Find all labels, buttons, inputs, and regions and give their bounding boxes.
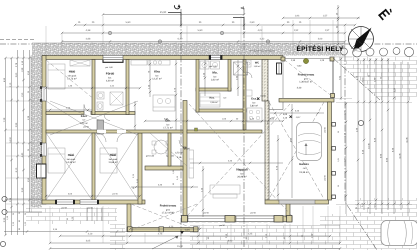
section line A-A vertical [243,8,245,248]
svg-text:1,52: 1,52 [294,29,299,32]
property boundary dash-dot line (telekhatár) [0,43,417,45]
interior dim v line x176 [175,60,177,130]
svg-text:1,88: 1,88 [21,67,24,72]
svg-text:30: 30 [337,131,340,133]
dim row top 3 [62,32,345,34]
svg-text:6,40: 6,40 [178,38,183,41]
door arc nappali [179,140,187,148]
svg-text:8,90: 8,90 [228,239,233,242]
tree/bush 6 [404,47,413,56]
svg-text:4,02: 4,02 [258,29,263,32]
marker circle right mid [358,120,363,125]
svg-text:pm 90: pm 90 [87,207,92,210]
roof diagonal terrace 2 [131,204,197,230]
svg-text:pm 1,80: pm 1,80 [209,65,217,68]
door gap corridor-bedroom1 [97,130,106,133]
leader diagonal hall [150,133,187,166]
interior wall Mosó left [196,60,199,113]
svg-text:2,10: 2,10 [88,232,93,235]
dim row right small [283,17,360,19]
svg-text:pm 90: pm 90 [219,224,224,227]
svg-text:14,39 m²: 14,39 m² [66,161,76,164]
nappali left wall [183,101,187,218]
chimney block left wall [37,164,47,178]
axis symbol row4 a [158,40,161,43]
svg-text:17,22 m²/90: 17,22 m²/90 [162,212,175,215]
svg-text:4,72 m²: 4,72 m² [175,152,183,155]
svg-text:1,30/4,67 m²: 1,30/4,67 m² [299,81,313,84]
window W6 bottom-left wing [80,200,98,204]
mosó fixtures [200,61,209,69]
svg-text:pm 90: pm 90 [324,175,327,180]
pantry shelves [200,93,220,107]
nappali left shelf [189,150,194,178]
svg-text:3,10: 3,10 [9,82,12,87]
svg-text:1,80 m²: 1,80 m² [254,65,261,68]
roof hip nappali diagonal 2 [189,104,292,216]
svg-text:pm 90: pm 90 [324,127,327,132]
door arc Háló [84,105,91,112]
section line C-C vertical [180,9,182,248]
interior wall below Fürdő [91,112,135,115]
svg-text:gres 0,00: gres 0,00 [146,155,155,158]
brick paving bottom band [190,226,417,250]
svg-text:14,90: 14,90 [9,136,12,142]
extension lines right of building [336,102,412,104]
dim col left 4 [23,50,25,235]
svg-text:2,65 m²: 2,65 m² [210,101,218,104]
compass circle [349,27,374,52]
dining table [154,140,168,154]
extension lines left of wall [6,57,42,59]
dim col top right x338 [337,5,339,44]
dim row bottom 2 [60,235,330,237]
terrace NE edge line [332,57,334,98]
section diagonal top-right [333,58,380,100]
terrace column NW [281,57,285,61]
svg-text:4,32: 4,32 [260,38,265,41]
tree/bush 3 [366,48,374,56]
exterior wall bottom of left wing [42,200,145,204]
window W2 top [210,55,221,59]
svg-text:15,90: 15,90 [177,245,184,248]
terrace bottom wall [127,228,198,232]
steps below left wing [86,208,88,222]
compass label É north [378,6,393,20]
terrace top edge thin line [285,58,330,60]
svg-text:19,36 m²: 19,36 m² [299,171,309,174]
window W1 bath top [103,55,123,59]
interior wall WC/Eszközt left [243,60,246,131]
car in garage [297,123,322,161]
dim col right 10 [407,62,409,216]
interior wall Mosó right [228,60,231,92]
window W7 nappali south [188,216,225,222]
svg-text:2,35: 2,35 [3,217,6,222]
brick paving walkway south of left wing [26,208,117,225]
nappali bottom wall [183,216,292,222]
door arc esz-garage [267,117,275,125]
svg-text:17,71 m²: 17,71 m² [163,127,173,130]
dim col right 6 [381,58,383,214]
dim row bottom 4 [50,248,340,250]
bed top-left bedroom [48,64,65,89]
dim col left 5 [29,50,31,212]
svg-text:15,90: 15,90 [160,11,167,14]
interior dim row y110 left [46,109,92,111]
svg-text:-0,02: -0,02 [297,65,303,68]
sofa nappali [210,185,240,194]
svg-text:1,50: 1,50 [21,92,24,97]
svg-text:3,75: 3,75 [169,225,174,228]
svg-text:1,05: 1,05 [337,158,340,162]
interior dim line terrace [131,186,198,188]
interior wall Fürdő/Konyha [126,60,129,115]
svg-text:-0,17: -0,17 [296,116,302,119]
section line vertical right x345 [345,55,377,250]
garage NW notch lines [269,109,283,111]
svg-text:pm 90: pm 90 [112,192,118,195]
svg-text:26,98 m²: 26,98 m² [237,176,247,179]
svg-text:Kha: Kha [154,70,160,74]
kitchen counter top [131,60,147,65]
dim col right 5 [375,58,377,210]
axis symbol row3 a [108,31,111,34]
svg-text:±0,00: ±0,00 [260,95,266,98]
interior dim v line x238 [237,60,239,96]
dim row bottom 3 [50,242,340,244]
terrace bottom pillars [128,227,133,232]
kitchen block center [153,95,175,111]
dim row top 4 [62,41,345,43]
tree/bush 2 [353,48,362,57]
svg-text:Esz.: Esz. [251,97,257,101]
esz table [247,108,262,122]
brick paving bottom-right block [320,214,417,250]
door arc wc [246,72,252,78]
svg-text:2,80: 2,80 [250,21,255,24]
svg-text:5,80: 5,80 [198,29,203,32]
garage side pillars pm90 [332,123,336,127]
roof diagonal terrace 1 [131,204,197,230]
svg-text:1,93: 1,93 [295,15,300,18]
extension lines below building [49,206,51,243]
roof diagonal garage 2 [269,102,324,199]
interior dim v line x205 [204,60,206,96]
svg-text:3,02 m²: 3,02 m² [211,79,219,82]
bedroom2 cross diagonal 1 [95,133,138,200]
dim col right 9 [400,62,402,210]
terrace column NE [330,57,334,61]
interior wall corridor bottom [46,130,187,133]
green marker square [195,128,198,131]
terrace west edge line [282,60,284,99]
hatched section wall right of WC [262,60,268,102]
wardrobe top bedroom [70,60,90,66]
svg-text:pm 90: pm 90 [83,126,88,129]
svg-text:4,88: 4,88 [86,38,91,41]
svg-text:Háló: Háló [110,153,117,157]
dim row bottom-left short [4,231,130,233]
dim col left 3 [17,50,19,235]
svg-text:2,95: 2,95 [21,187,24,192]
tree/bush 5 [393,48,400,55]
nappali SE corner wall [286,204,290,217]
dim col right 2 [357,58,359,212]
marker circle bottom-left corner [0,241,5,246]
section marker A top [233,18,244,31]
svg-text:5,80: 5,80 [126,21,131,24]
brick paving path going south [110,224,125,250]
svg-text:3,05: 3,05 [86,239,91,242]
svg-text:Fürdő: Fürdő [106,72,115,76]
roof hip nappali diagonal 1 [187,104,290,216]
gardrob west wall [168,133,171,166]
pavement edge below nappali [190,225,340,227]
dim row top 2 [75,24,355,26]
svg-text:Nappali: Nappali [236,168,247,172]
bedroom2 cross diagonal 2 [95,133,138,200]
svg-text:11,86 m²: 11,86 m² [108,161,117,164]
svg-text:4,38: 4,38 [86,29,91,32]
door gap corridor-bedroom2 [117,130,126,133]
tree/bush 4 [380,48,388,56]
bed bedroom 2 [48,148,65,173]
svg-text:WC: WC [255,62,259,65]
svg-text:Kerti épített kerti tűzrakóhel: Kerti épített kerti tűzrakóhely [249,50,274,53]
gravel strip top (kavics) [32,43,345,56]
svg-text:pm 90: pm 90 [203,212,208,215]
interior dim line garage top [270,112,324,114]
dim col right extra x346 [345,102,347,214]
leader diagonal corridor 1 [50,101,138,135]
marker circle left 2 [2,209,7,214]
svg-text:10,45: 10,45 [367,142,370,148]
dashed overhang below nappali [183,221,290,223]
dim col right 8 [393,62,395,214]
terrace left wall [127,204,131,232]
svg-text:Háló: Háló [68,153,75,157]
interior v dim terrace right [202,166,204,217]
gravel strip left [31,56,42,208]
door arc corridor-bath [104,115,110,121]
interior dim v line x150 [149,60,151,97]
svg-text:pm 1,80: pm 1,80 [105,66,113,69]
interior dim v line x292 [291,104,293,198]
interior wall between lower bedrooms [92,133,95,200]
interior wall Háló/Fürdő [92,60,95,115]
svg-text:2,75: 2,75 [158,232,163,235]
svg-text:ÉPÍTÉSI HELY: ÉPÍTÉSI HELY [296,45,343,53]
svg-text:pm 90: pm 90 [61,207,66,210]
compass needle [357,28,372,45]
section marker C top [168,13,181,27]
dim row top 15,90 [103,14,244,16]
garage right wall [328,102,332,200]
svg-text:11,35: 11,35 [398,153,401,159]
marker circle left 1 [2,196,7,201]
brick paving right-bottom [355,198,417,250]
svg-text:Étk.: Étk. [165,119,170,123]
axis symbol row3 b [220,31,223,34]
interior dim line hall [46,195,140,197]
exterior wall left [42,56,46,205]
tree symbol on terrace [303,58,308,63]
svg-text:1,57: 1,57 [323,15,328,18]
svg-text:ker: ker [83,119,86,122]
compass cross lines [351,29,371,49]
svg-text:6,10: 6,10 [15,167,18,172]
interior wall Mosó bottom [196,88,231,91]
interior v dim x135 corridor [134,101,136,130]
dim col right 7 [387,58,389,210]
svg-text:Mo.: Mo. [212,71,217,75]
svg-text:-0,04: -0,04 [184,229,190,232]
svg-text:Garázs: Garázs [299,162,309,166]
svg-text:12,37 m²: 12,37 m² [152,78,162,81]
brick paving top-right [333,57,417,101]
shower box WC [234,62,248,75]
svg-text:ker: ker [224,97,227,100]
dim col left 1 [5,58,7,235]
leader diagonal corridor 2 [50,101,138,135]
svg-text:4,00 m²: 4,00 m² [106,80,114,83]
svg-text:7,38: 7,38 [3,117,6,122]
svg-text:Fedett terasz: Fedett terasz [298,74,315,77]
window W4 left wall [42,143,46,156]
terrace-garage horizontal wall [279,99,334,103]
level mark bottom [180,231,184,234]
garage door opening [279,200,315,204]
svg-text:Kra.: Kra. [209,97,214,100]
bedroom1 cross diagonal 1 [46,133,92,200]
svg-text:4,25: 4,25 [248,232,253,235]
svg-text:5,80 m²: 5,80 m² [250,105,258,108]
exterior wall top [42,56,283,60]
svg-text:Közl.: Közl. [81,115,88,118]
dim col right terrace 7,92 [340,57,342,100]
svg-text:4,40: 4,40 [21,152,24,157]
secondary dashed line top-left [0,38,34,40]
window W5 bottom-left wing [56,200,74,204]
dim col left 2 [11,58,13,235]
interior dim line nappali [190,162,283,164]
svg-text:1,57: 1,57 [325,29,330,32]
tree/bush 1 [341,48,348,55]
dim col right 3 [363,58,365,210]
washing machine [97,120,104,134]
interior dim line center row [145,120,283,122]
esz/nappali dividing wall [187,130,262,133]
extension lines above top wall [45,26,47,55]
roof diagonal top-left room [46,60,92,98]
terrace column SE [331,94,335,98]
svg-text:11,35: 11,35 [405,137,408,143]
leader arrow bottom center [152,236,178,249]
window W3 left wall [42,87,46,101]
gravel strip outline top [32,42,345,44]
svg-text:3,00: 3,00 [318,38,323,41]
svg-text:2,60: 2,60 [15,72,18,77]
dim row bottom 1 [130,228,200,230]
svg-text:⊲: ⊲ [240,6,244,12]
interior dim v line x278 nappali [277,135,279,200]
svg-text:4,72 m²: 4,72 m² [80,122,88,125]
dim col right 4 [369,58,371,214]
svg-text:pm 90: pm 90 [250,212,255,215]
svg-text:Fedett terasz: Fedett terasz [160,205,177,208]
gravel strip outline left [30,56,32,208]
bath fixtures [110,92,123,105]
interior wall Kamra bottom [196,109,246,112]
window in wall at x278 [277,63,282,74]
svg-text:14,73 m²: 14,73 m² [67,78,77,81]
interior wall below Háló top [46,112,84,115]
window W8 nappali south [236,216,274,222]
interior dim line kitchen row [46,87,140,89]
axis symbol row4 b [266,40,269,43]
bedroom1 cross diagonal 2 [46,133,92,200]
bed bedroom 3 [100,148,117,173]
svg-text:30: 30 [337,185,340,187]
wall right edge of left wing / terrace left [138,133,142,204]
car bottom right [381,221,417,246]
garage left wall [265,101,269,200]
nappali south pillars [182,216,188,223]
terrace north wall segment [145,166,183,170]
hall cross diagonal 1 [46,101,92,130]
roof diagonal garage 1 [269,102,324,199]
svg-text:Háló: Háló [69,70,76,74]
svg-text:3,85: 3,85 [15,122,18,127]
roof diagonal terrace NE [284,60,333,98]
garage bottom wall [265,200,329,204]
svg-text:2,40: 2,40 [297,87,302,90]
